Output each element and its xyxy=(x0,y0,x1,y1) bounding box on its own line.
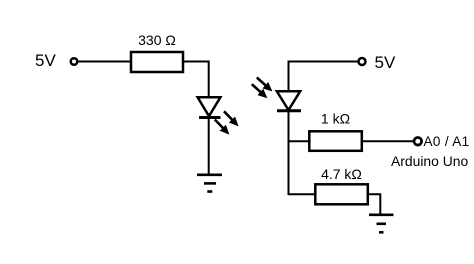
wire: left 5V terminal to R1 xyxy=(77,61,131,63)
LED D1 xyxy=(198,97,242,137)
wire: R3 to ground xyxy=(368,194,381,215)
svg-text:Arduino Uno: Arduino Uno xyxy=(391,153,468,169)
wire: divider node to R3 xyxy=(289,193,317,195)
terminal: left 5V xyxy=(71,58,78,65)
wire: R1 to LED D1 anode xyxy=(183,62,209,98)
wire: LED cathode to ground xyxy=(208,118,210,175)
svg-text:A0 / A1: A0 / A1 xyxy=(424,134,470,149)
wire: photodiode cathode down to divider node xyxy=(288,111,290,195)
terminal: A0/A1 xyxy=(414,138,422,146)
resistor R2 1kΩ xyxy=(309,131,362,151)
svg-text:5V: 5V xyxy=(375,53,396,72)
wire: right 5V terminal to photodiode D2 anode xyxy=(289,62,358,92)
terminal: right 5V xyxy=(359,58,366,65)
ground (LED cathode) xyxy=(197,175,222,192)
svg-text:5V: 5V xyxy=(35,51,56,70)
photodiode D2 xyxy=(249,74,301,110)
svg-text:330 Ω: 330 Ω xyxy=(138,32,176,48)
ground (R3 / divider) xyxy=(369,215,394,233)
resistor R3 4.7kΩ xyxy=(315,184,368,204)
resistor R1 330Ω xyxy=(131,52,183,72)
svg-text:4.7 kΩ: 4.7 kΩ xyxy=(321,166,362,182)
svg-text:1 kΩ: 1 kΩ xyxy=(321,111,350,127)
wire: divider node to R2 xyxy=(289,140,311,142)
wire: R2 to A0/A1 terminal xyxy=(362,140,414,142)
